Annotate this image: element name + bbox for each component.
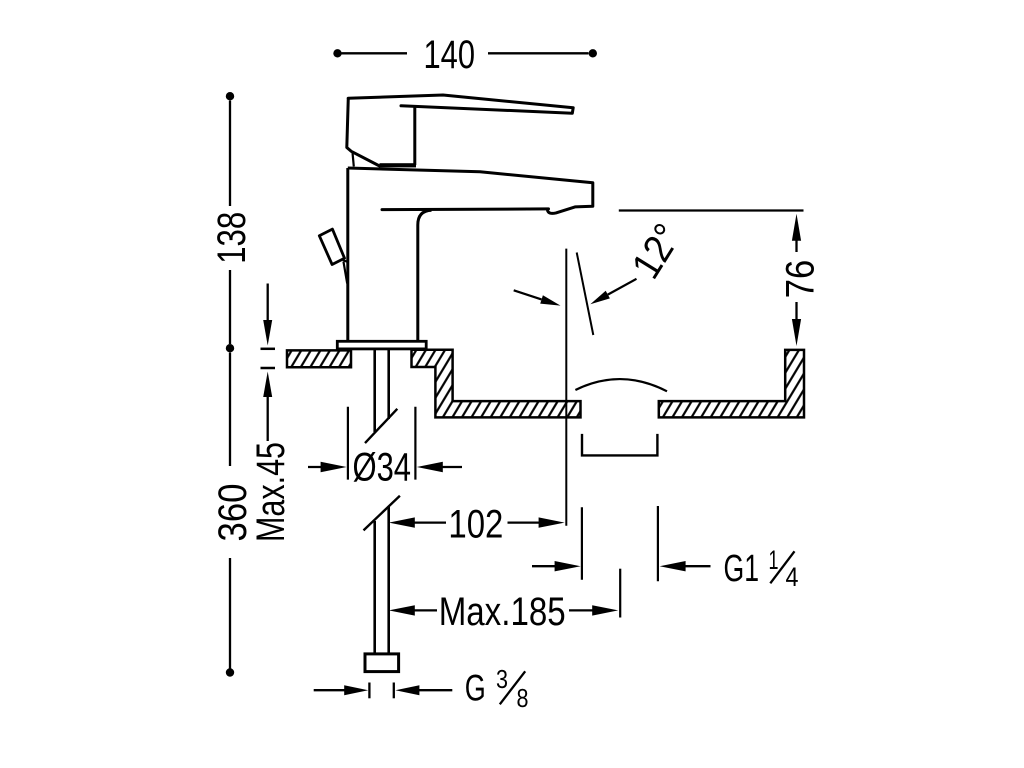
- dimension 76 lower arrow: [795, 302, 797, 323]
- countertop right wall: [659, 350, 804, 418]
- dimension 102 left arrow: [389, 517, 415, 527]
- faucet body left edge: [346, 168, 349, 341]
- dimension G1 1/4 extension left: [581, 507, 583, 580]
- dimension O34 extension right: [414, 407, 416, 480]
- faucet body right edge curve: [418, 210, 432, 341]
- svg-text:Ø34: Ø34: [353, 445, 412, 489]
- shank right line: [387, 349, 390, 419]
- dimension Max.45 tick bottom: [261, 367, 276, 370]
- dimension 76 upper arrow: [792, 214, 801, 241]
- dimension G 3/8 tick left: [368, 683, 370, 699]
- drain pop-up knob: [319, 229, 344, 264]
- shank break slash lower: [364, 496, 400, 531]
- faucet handle base bar: [380, 163, 417, 167]
- dimension 138 line lower: [229, 270, 231, 344]
- dimension 360 line upper: [229, 353, 231, 467]
- faucet handle left edge: [347, 98, 381, 167]
- faucet handle corner sliver: [353, 153, 354, 167]
- faucet spout underside: [382, 207, 549, 211]
- 12 degree left arrow: [514, 290, 542, 299]
- dimension O34 left arrow: [308, 466, 328, 468]
- basin arc: [575, 379, 667, 391]
- countertop middle step: [412, 350, 581, 418]
- svg-text:Max.45: Max.45: [249, 442, 293, 542]
- dimension G 3/8 left arrow: [314, 689, 350, 691]
- svg-text:4: 4: [786, 562, 799, 592]
- faucet handle lever outline: [348, 95, 573, 113]
- dimension 102 right arrow: [508, 521, 547, 523]
- escutcheon base plate: [337, 341, 426, 349]
- svg-text:3: 3: [496, 664, 508, 694]
- svg-text:Max.185: Max.185: [439, 590, 566, 634]
- 12 degree slanted line: [577, 253, 594, 336]
- dimension G1 1/4 right arrow: [660, 561, 686, 571]
- svg-text:G: G: [465, 667, 486, 708]
- dimension G1 1/4 left arrow: [532, 565, 563, 567]
- svg-text:G1: G1: [724, 548, 760, 590]
- centerline vertical axis: [565, 249, 567, 526]
- dimension 140 line right: [488, 52, 589, 54]
- dimension G 3/8 right arrow: [395, 685, 419, 695]
- drain tailpiece: [582, 434, 657, 456]
- dimension O34 extension left: [347, 407, 349, 480]
- svg-text:140: 140: [424, 33, 476, 77]
- dimension 140 line left: [342, 52, 408, 54]
- svg-text:76: 76: [779, 260, 823, 299]
- dimension 138 line upper: [229, 101, 231, 207]
- dimension Max.45 tick top: [261, 348, 276, 351]
- dimension 138/360 dot bottom: [226, 668, 234, 676]
- shank break slash upper: [365, 409, 397, 443]
- svg-text:102: 102: [448, 502, 503, 546]
- svg-text:1: 1: [769, 545, 779, 575]
- 12 degree leader arrow: [608, 279, 637, 295]
- dimension G 3/8 tick right: [393, 683, 395, 699]
- dimension 140 dot left: [333, 49, 341, 57]
- spout reference line: [619, 209, 804, 211]
- dimension 138/360 dot middle: [226, 344, 234, 352]
- dimension Max.45 lower arrow: [263, 372, 272, 398]
- faucet handle front edge: [413, 107, 416, 166]
- svg-text:138: 138: [210, 212, 254, 264]
- svg-text:8: 8: [517, 683, 529, 713]
- dimension O34 right arrow: [417, 462, 443, 472]
- faucet body and spout outline: [348, 168, 593, 213]
- dimension Max.185 right arrow: [569, 609, 600, 611]
- drain knob stem: [343, 260, 348, 262]
- dimension Max.185 left arrow: [389, 605, 415, 615]
- countertop left slab: [287, 350, 351, 367]
- dimension 138/360 dot top: [226, 92, 234, 100]
- dimension 140 dot right: [589, 49, 597, 57]
- shank left line: [373, 349, 376, 432]
- dimension G1 1/4 extension right: [657, 506, 659, 581]
- dimension Max.45 upper arrow: [267, 284, 269, 323]
- dimension 360 line lower: [229, 558, 231, 669]
- dimension Max.185 extension: [619, 569, 621, 618]
- supply nut: [365, 654, 399, 672]
